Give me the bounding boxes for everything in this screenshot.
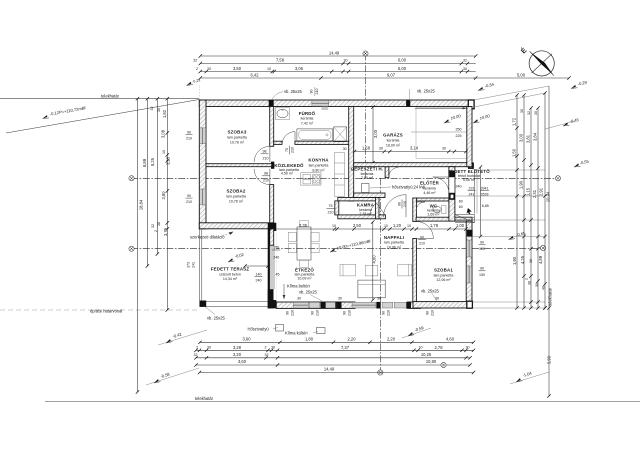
svg-text:40: 40 xyxy=(542,286,546,290)
right vertical dim line 3 xyxy=(530,108,532,308)
arrow marker xyxy=(467,208,472,214)
heat pump unit in gepeszeti xyxy=(362,184,370,193)
right vertical 5,90 on property line xyxy=(547,306,550,309)
outdoor unit heat pump xyxy=(276,325,284,332)
svg-text:5,06 m²: 5,06 m² xyxy=(463,178,476,182)
svg-text:5,90: 5,90 xyxy=(546,355,551,364)
svg-text:30: 30 xyxy=(442,146,446,150)
elevation flag terrace -0,02 xyxy=(227,258,234,263)
svg-text:7,58: 7,58 xyxy=(276,58,285,63)
svg-text:210: 210 xyxy=(387,310,391,316)
svg-text:18,84: 18,84 xyxy=(138,199,143,210)
svg-text:hőszivattyú:24 kW: hőszivattyú:24 kW xyxy=(392,185,425,190)
svg-text:90: 90 xyxy=(480,267,484,271)
svg-text:30: 30 xyxy=(344,59,348,63)
svg-text:10: 10 xyxy=(332,224,336,228)
corner level -0,23 xyxy=(186,81,193,86)
property line bottom (telekhatar) xyxy=(45,401,640,403)
svg-text:10: 10 xyxy=(267,67,271,71)
svg-text:90: 90 xyxy=(426,311,430,315)
svg-text:14,49: 14,49 xyxy=(324,367,335,372)
diagonal property line top-left with level text xyxy=(6,100,199,134)
north compass xyxy=(519,45,555,76)
svg-text:3,60: 3,60 xyxy=(238,359,247,364)
svg-text:6,42: 6,42 xyxy=(251,72,260,77)
svg-text:225: 225 xyxy=(456,134,462,138)
svg-text:8,89: 8,89 xyxy=(142,158,147,167)
svg-text:vb. 25x25: vb. 25x25 xyxy=(299,290,317,295)
svg-text:FÜRDŐ: FÜRDŐ xyxy=(299,111,316,116)
dim row bottom 3 xyxy=(196,357,470,359)
property line top (telekhatar) xyxy=(0,98,199,100)
svg-text:Hőszivattyú: Hőszivattyú xyxy=(248,327,270,332)
wall szoba3/szoba2 divider xyxy=(206,164,272,167)
west exterior wall xyxy=(199,100,206,229)
svg-text:3,08: 3,08 xyxy=(161,129,166,138)
svg-text:30: 30 xyxy=(520,109,524,113)
svg-text:2: 2 xyxy=(525,278,529,280)
svg-text:32: 32 xyxy=(463,59,467,63)
svg-text:kerámia: kerámia xyxy=(387,139,400,143)
section line vertical lower xyxy=(379,178,381,372)
section line B-B horizontal xyxy=(131,248,472,250)
svg-text:150: 150 xyxy=(273,245,279,249)
section line vertical upper xyxy=(365,54,367,179)
door eloter/nappali xyxy=(383,195,406,218)
svg-text:32: 32 xyxy=(151,224,155,228)
content xyxy=(0,79,640,401)
south exterior wall band xyxy=(276,302,342,308)
svg-text:36: 36 xyxy=(528,281,532,285)
door gepeszeti xyxy=(389,167,398,176)
svg-text:241: 241 xyxy=(192,262,196,268)
svg-text:18,00 m²: 18,00 m² xyxy=(386,143,401,147)
svg-text:60: 60 xyxy=(459,199,463,203)
svg-text:építési határvonal: építési határvonal xyxy=(90,308,122,313)
szoba2 south exterior wall xyxy=(199,223,273,229)
dim row top 3: 30 3,50 10 3,06 6,00 30 xyxy=(200,71,475,73)
svg-text:90: 90 xyxy=(343,311,347,315)
svg-text:lam.parketta: lam.parketta xyxy=(309,164,329,168)
svg-text:8,25: 8,25 xyxy=(150,157,155,166)
south window nappali mid xyxy=(382,302,393,308)
wc south / nappali north wall east xyxy=(416,217,472,221)
svg-text:4,50 m²: 4,50 m² xyxy=(281,171,294,175)
svg-text:2,38 m²: 2,38 m² xyxy=(359,212,372,216)
terrace sliding door opening xyxy=(269,245,271,289)
svg-text:Klíma beltéri: Klíma beltéri xyxy=(287,284,310,289)
svg-text:240: 240 xyxy=(456,184,462,188)
terrace door dim 140 line xyxy=(245,265,268,267)
svg-text:140: 140 xyxy=(256,272,262,276)
svg-text:30: 30 xyxy=(379,146,383,150)
svg-text:90: 90 xyxy=(187,194,191,198)
column vb 20x25 north mid garage xyxy=(406,100,410,107)
szoba1 east wall xyxy=(466,221,472,307)
door szoba2 xyxy=(254,169,270,185)
garage interior width dim 3,00 xyxy=(372,107,374,163)
svg-text:3,06: 3,06 xyxy=(295,66,304,71)
svg-text:5,00: 5,00 xyxy=(517,72,526,77)
svg-text:373: 373 xyxy=(187,262,191,268)
window szoba1 east 2 xyxy=(467,266,472,283)
kitchen tall units xyxy=(335,153,345,197)
svg-text:kerámia: kerámia xyxy=(301,117,314,121)
door wc xyxy=(416,202,425,211)
south window nappali east xyxy=(394,302,407,308)
gepeszeti/eloter wall xyxy=(385,167,389,178)
garage door line with arrow xyxy=(415,107,467,109)
left vertical dim line 4 xyxy=(166,99,168,310)
wall kitchen/garage vertical xyxy=(349,107,354,201)
svg-text:210: 210 xyxy=(419,242,425,246)
svg-text:NAPPALI: NAPPALI xyxy=(384,235,404,240)
svg-text:90: 90 xyxy=(311,311,315,315)
svg-text:10: 10 xyxy=(407,224,411,228)
right vertical dim line 4 xyxy=(537,108,539,308)
door nappali/szoba1 xyxy=(416,222,433,239)
left vertical dim line 2 xyxy=(146,99,148,266)
dining table xyxy=(297,227,311,260)
svg-text:1,20: 1,20 xyxy=(393,223,402,228)
svg-text:36: 36 xyxy=(529,259,533,263)
column vb 25x25 north at szoba3/furdo xyxy=(269,100,274,107)
svg-text:60: 60 xyxy=(459,205,463,209)
svg-text:210: 210 xyxy=(315,89,319,95)
terrace wall corner black L xyxy=(268,223,277,309)
svg-text:210: 210 xyxy=(263,178,269,182)
diagonal leader bottom-right -1,04 xyxy=(510,372,549,384)
bathroom south wall xyxy=(295,141,354,144)
left vertical dim line 3 xyxy=(156,99,158,254)
right fan connector lines xyxy=(455,93,545,308)
svg-text:30: 30 xyxy=(463,67,467,71)
svg-text:98: 98 xyxy=(263,150,267,154)
kamra west wall xyxy=(335,201,339,215)
dim row bottom 1 xyxy=(200,341,474,343)
svg-text:6,85: 6,85 xyxy=(482,204,489,208)
svg-text:30: 30 xyxy=(271,346,275,350)
svg-text:GÉPÉSZETI H.: GÉPÉSZETI H. xyxy=(351,166,384,171)
kamra north wall xyxy=(338,198,379,201)
south rotated window labels xyxy=(286,310,435,316)
building limit line (epitesi hatarvonal) xyxy=(0,309,199,311)
shower xyxy=(334,127,347,142)
svg-text:75: 75 xyxy=(329,204,333,208)
kamra south / nappali north wall xyxy=(338,215,386,219)
diagonal leader bottom-left -0,58 xyxy=(146,368,199,385)
window bathroom north xyxy=(312,100,329,106)
svg-text:2: 2 xyxy=(196,67,198,71)
svg-text:3,80: 3,80 xyxy=(161,191,166,200)
svg-text:210: 210 xyxy=(328,211,334,215)
svg-text:10: 10 xyxy=(384,224,388,228)
elevation flag garage xyxy=(443,119,450,124)
terrace slab edge left xyxy=(199,229,201,307)
south corner SE black frame xyxy=(467,301,473,308)
svg-text:210: 210 xyxy=(431,310,435,316)
svg-text:4,25: 4,25 xyxy=(520,255,525,264)
svg-text:30: 30 xyxy=(157,108,161,112)
garage SE corner column xyxy=(468,163,474,169)
svg-text:98: 98 xyxy=(264,172,268,176)
svg-text:4,46 m²: 4,46 m² xyxy=(423,191,436,195)
canopy edge east xyxy=(473,169,475,214)
svg-text:csiszolt beton: csiszolt beton xyxy=(219,272,241,276)
svg-text:10,94: 10,94 xyxy=(546,191,551,202)
svg-text:3941: 3941 xyxy=(481,186,489,190)
gepeszeti south wall xyxy=(354,193,385,198)
svg-text:3,84: 3,84 xyxy=(532,132,537,141)
svg-text:90: 90 xyxy=(187,130,191,134)
diagonal leaders right side -0,45 / -0,55 xyxy=(545,121,575,129)
svg-text:1,72: 1,72 xyxy=(511,117,516,126)
svg-text:2,20: 2,20 xyxy=(387,337,396,342)
svg-text:30: 30 xyxy=(338,297,342,301)
svg-text:30: 30 xyxy=(207,67,211,71)
entry door xyxy=(433,177,449,193)
svg-text:7,37: 7,37 xyxy=(341,345,350,350)
entry door jamb caps xyxy=(449,171,455,177)
svg-text:1,78: 1,78 xyxy=(430,223,439,228)
entry door opening xyxy=(449,177,454,193)
svg-text:kerámia: kerámia xyxy=(361,172,374,176)
svg-text:2,91: 2,91 xyxy=(538,187,543,196)
south posts vb25 xyxy=(320,302,325,309)
svg-text:4,60: 4,60 xyxy=(446,337,455,342)
bathtub xyxy=(297,129,333,141)
property line right vertical xyxy=(548,86,550,396)
svg-text:75: 75 xyxy=(285,148,289,152)
south windows etkezo xyxy=(294,302,309,308)
svg-text:32: 32 xyxy=(193,59,197,63)
dim 5,00 to property line xyxy=(474,77,570,79)
svg-text:1,80: 1,80 xyxy=(305,337,314,342)
svg-text:2,20: 2,20 xyxy=(348,337,357,342)
svg-text:3,75: 3,75 xyxy=(163,227,168,236)
svg-text:10,09 m²: 10,09 m² xyxy=(297,276,312,280)
svg-text:10,80: 10,80 xyxy=(426,359,437,364)
svg-text:30: 30 xyxy=(466,346,470,350)
svg-text:210: 210 xyxy=(291,147,295,153)
right vertical dim line 2 xyxy=(523,95,525,308)
svg-text:vb. 25x25: vb. 25x25 xyxy=(284,89,302,94)
svg-text:90: 90 xyxy=(286,311,290,315)
kamra east wall xyxy=(375,198,379,219)
svg-text:3,20: 3,20 xyxy=(233,352,242,357)
svg-text:6,00: 6,00 xyxy=(398,66,407,71)
svg-text:telekhatár: telekhatár xyxy=(195,396,214,401)
svg-text:3,28: 3,28 xyxy=(233,345,242,350)
svg-text:8,80 m²: 8,80 m² xyxy=(312,168,325,172)
svg-text:30: 30 xyxy=(534,111,538,115)
svg-text:90: 90 xyxy=(382,311,386,315)
svg-text:10: 10 xyxy=(162,150,166,154)
svg-text:14,34 m²: 14,34 m² xyxy=(223,277,238,281)
svg-text:2,31: 2,31 xyxy=(532,189,537,198)
svg-text:10,78 m²: 10,78 m² xyxy=(230,140,245,144)
svg-text:1,90: 1,90 xyxy=(518,180,523,189)
svg-text:telekhatár: telekhatár xyxy=(548,287,553,306)
dim row bottom 4 xyxy=(196,364,470,366)
nappali vertical dim 4,60 xyxy=(372,222,374,300)
svg-text:38: 38 xyxy=(157,222,161,226)
bathroom south wall stub left of door xyxy=(274,141,282,144)
wc west wall xyxy=(413,198,417,222)
outdoor unit klima xyxy=(317,328,326,334)
svg-text:GARÁZS: GARÁZS xyxy=(383,133,403,138)
east exterior wall at entry xyxy=(449,167,455,221)
svg-text:30: 30 xyxy=(343,147,347,151)
nappali internal dim row xyxy=(272,228,467,230)
svg-text:12,06 m²: 12,06 m² xyxy=(436,278,451,282)
right vertical dim line 1 xyxy=(516,95,518,308)
svg-text:210: 210 xyxy=(316,310,320,316)
svg-text:1,00: 1,00 xyxy=(456,223,465,228)
svg-text:210: 210 xyxy=(348,310,352,316)
svg-text:210: 210 xyxy=(291,310,295,316)
svg-text:1,82: 1,82 xyxy=(162,109,167,118)
kitchen counter xyxy=(301,173,321,185)
corner column NE xyxy=(468,100,474,109)
svg-text:3,35: 3,35 xyxy=(299,223,308,228)
svg-text:SZOBA3: SZOBA3 xyxy=(227,130,246,135)
window szoba2 west xyxy=(200,189,206,205)
svg-text:lam.parketta: lam.parketta xyxy=(227,136,247,140)
north exterior wall xyxy=(199,100,474,107)
svg-text:7,42 m²: 7,42 m² xyxy=(301,121,314,125)
diagonal leader bottom-left -0,42 xyxy=(158,330,207,345)
svg-text:210: 210 xyxy=(403,201,407,207)
right vertical dim line 5 xyxy=(544,93,546,308)
dim row bottom 5: 14,49 xyxy=(200,372,474,374)
svg-text:240: 240 xyxy=(273,255,279,259)
terrace column SW xyxy=(200,301,206,307)
south window nappali big xyxy=(352,302,376,308)
dim row top 1: 14,49 xyxy=(200,55,475,57)
porch column east xyxy=(467,230,473,237)
svg-text:90: 90 xyxy=(398,202,402,206)
svg-text:150: 150 xyxy=(479,273,485,277)
svg-text:30: 30 xyxy=(535,283,539,287)
svg-text:2,50: 2,50 xyxy=(353,223,362,228)
svg-text:231: 231 xyxy=(469,186,475,190)
svg-text:2: 2 xyxy=(196,346,198,350)
svg-text:32: 32 xyxy=(194,353,198,357)
svg-text:Klíma kültéri: Klíma kültéri xyxy=(285,331,308,336)
toilet xyxy=(442,206,447,214)
svg-text:3,00: 3,00 xyxy=(373,129,378,138)
svg-text:vb. 25x25: vb. 25x25 xyxy=(421,289,439,294)
svg-text:ÉTKEZŐ: ÉTKEZŐ xyxy=(295,267,314,272)
garage internal dim row xyxy=(355,151,467,153)
svg-text:90: 90 xyxy=(480,241,484,245)
svg-text:lam.parketta: lam.parketta xyxy=(434,273,454,277)
svg-text:vb. 25x25: vb. 25x25 xyxy=(207,316,225,321)
svg-text:2,50 m²: 2,50 m² xyxy=(361,176,374,180)
svg-text:lam.parketta: lam.parketta xyxy=(226,195,246,199)
nappali/szoba1 wall xyxy=(413,239,417,303)
wall szoba wing / center (szoba3+szoba2 east) xyxy=(270,107,274,147)
svg-text:45: 45 xyxy=(276,273,280,277)
svg-text:210: 210 xyxy=(186,137,192,141)
svg-text:1,69 m²: 1,69 m² xyxy=(427,213,440,217)
door furdo xyxy=(282,132,295,145)
diagonal leader bottom -0,58 mid xyxy=(402,328,431,338)
passage dim 6,85 xyxy=(480,167,482,237)
garage door swing projection xyxy=(416,107,468,158)
svg-text:telekhatár: telekhatár xyxy=(101,93,120,98)
svg-text:1,15: 1,15 xyxy=(525,187,530,196)
svg-text:3,81: 3,81 xyxy=(525,134,530,143)
section line A-A horizontal xyxy=(131,177,558,179)
svg-text:vb. 25x25: vb. 25x25 xyxy=(417,89,435,94)
level note on B-B xyxy=(329,248,336,252)
svg-text:30: 30 xyxy=(297,297,301,301)
svg-text:3,60: 3,60 xyxy=(243,337,252,342)
svg-text:90: 90 xyxy=(420,235,424,239)
window sill stub furdo xyxy=(321,107,328,110)
svg-text:6,00: 6,00 xyxy=(398,58,407,63)
svg-text:18,96 m²: 18,96 m² xyxy=(387,245,402,249)
svg-text:10,25: 10,25 xyxy=(421,352,432,357)
dim row top 4: 6,42 9,07 xyxy=(200,77,475,79)
svg-text:4,60: 4,60 xyxy=(372,255,377,264)
window szoba1 east 1 xyxy=(467,240,472,257)
svg-text:KONYHA: KONYHA xyxy=(308,158,329,163)
svg-text:szerkezeti dilatáció: szerkezeti dilatáció xyxy=(190,235,225,240)
svg-text:32: 32 xyxy=(265,353,269,357)
window szoba3 west xyxy=(200,128,206,144)
divider wall end cap xyxy=(271,162,274,169)
svg-text:1,50: 1,50 xyxy=(511,148,516,157)
svg-text:210: 210 xyxy=(186,200,192,204)
svg-text:1,90: 1,90 xyxy=(512,256,517,265)
door kamra xyxy=(376,203,385,215)
door szoba3 xyxy=(254,146,270,162)
svg-text:2: 2 xyxy=(265,346,267,350)
svg-text:10,76 m²: 10,76 m² xyxy=(229,199,244,203)
svg-text:3,25: 3,25 xyxy=(166,156,171,165)
svg-text:3,50: 3,50 xyxy=(233,66,242,71)
dim row bottom 2 xyxy=(196,349,474,351)
svg-text:KAMRA: KAMRA xyxy=(357,203,375,208)
dim row top 2: 7,58 / 6,00 xyxy=(200,63,475,65)
left vertical dim line 1 xyxy=(137,99,139,392)
svg-text:14,49: 14,49 xyxy=(329,50,340,55)
svg-text:30: 30 xyxy=(377,297,381,301)
svg-text:30: 30 xyxy=(207,346,211,350)
svg-text:SZOBA1: SZOBA1 xyxy=(434,268,453,273)
svg-text:9,07: 9,07 xyxy=(387,72,396,77)
svg-text:3,14: 3,14 xyxy=(410,146,419,151)
garage south wall xyxy=(354,163,472,167)
svg-text:SZOBA2: SZOBA2 xyxy=(226,189,245,194)
svg-text:32: 32 xyxy=(527,111,531,115)
svg-text:2,78: 2,78 xyxy=(435,345,444,350)
svg-text:250: 250 xyxy=(456,128,462,132)
south window small xyxy=(326,302,336,308)
svg-text:3,00: 3,00 xyxy=(518,133,523,142)
entry steps xyxy=(455,215,475,223)
terrace slab edge bottom xyxy=(200,306,268,308)
sofa group xyxy=(340,264,356,276)
diagonal leaders top-right -0,34 / -0,29 xyxy=(474,86,549,100)
svg-text:210: 210 xyxy=(263,156,269,160)
wc north wall xyxy=(416,198,449,201)
svg-text:90: 90 xyxy=(310,90,314,94)
garage east wall xyxy=(467,107,472,167)
